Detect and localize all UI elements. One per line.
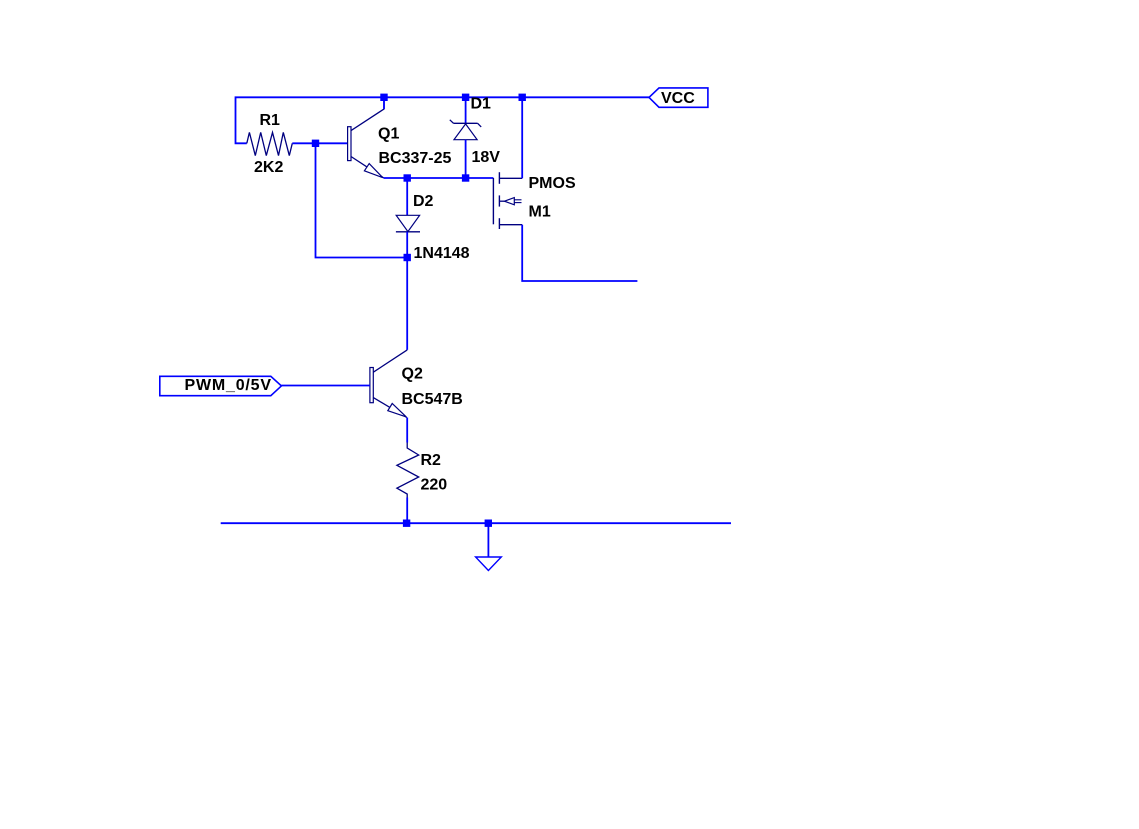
svg-text:BC547B: BC547B: [402, 391, 463, 408]
node junction rail-D1: [462, 94, 469, 101]
zener diode D1: [465, 97, 467, 123]
node junction emitter-D1: [462, 174, 469, 181]
svg-text:M1: M1: [529, 204, 551, 221]
node junction emitter-D2: [404, 174, 411, 181]
wire Q1 emitter run to PMOS gate: [384, 177, 494, 179]
svg-text:18V: 18V: [472, 149, 501, 166]
mosfet M1 body arrow: [499, 200, 504, 202]
resistor R1: [247, 132, 292, 155]
svg-text:R1: R1: [260, 112, 281, 129]
mosfet M1 channel bars: [498, 172, 500, 184]
svg-text:BC337-25: BC337-25: [379, 150, 452, 167]
svg-text:Q2: Q2: [402, 366, 423, 383]
node junction R1-base: [312, 140, 319, 147]
flag PWM_0/5V: [160, 376, 282, 395]
wire base node down: [316, 143, 408, 257]
mosfet M1 source stub: [499, 177, 522, 179]
svg-text:VCC: VCC: [661, 90, 695, 107]
wire PWM flag to Q2 base: [281, 385, 370, 387]
mosfet M1 drain stub: [499, 224, 522, 226]
wire VCC to M1 source: [521, 97, 523, 178]
svg-text:Q1: Q1: [378, 125, 399, 142]
wire Q1 collector stub: [383, 97, 385, 109]
wire R2 to ground bus: [406, 498, 408, 524]
svg-text:1N4148: 1N4148: [414, 245, 470, 262]
transistor Q2 collector: [373, 350, 407, 372]
transistor Q1 emitter: [351, 157, 384, 178]
wire M1 drain out: [522, 225, 637, 281]
flag VCC: [649, 88, 708, 107]
transistor Q2 emitter: [373, 398, 407, 418]
wire R1 to Q1 base: [292, 142, 347, 144]
diode D2: [406, 178, 408, 215]
node junction gnd-sym: [485, 520, 492, 527]
transistor Q2 emitter arrow: [388, 404, 407, 417]
transistor Q1 collector: [351, 97, 384, 130]
node junction rail-Q1: [380, 94, 387, 101]
mosfet M1 gate bar: [492, 178, 494, 224]
transistor Q1 emitter arrow: [364, 164, 382, 178]
svg-text:PMOS: PMOS: [529, 175, 576, 192]
node junction rail-M1: [519, 94, 526, 101]
resistor R2: [397, 443, 419, 498]
svg-text:220: 220: [421, 477, 448, 494]
transistor Q2 bar: [370, 368, 373, 403]
node junction D2-bottom: [404, 254, 411, 261]
wire top rail VCC: [236, 97, 650, 143]
transistor Q1 bar: [348, 127, 351, 161]
svg-text:R2: R2: [421, 452, 442, 469]
svg-text:PWM_0/5V: PWM_0/5V: [185, 377, 272, 394]
ground symbol: [487, 523, 489, 557]
svg-text:D1: D1: [471, 96, 492, 113]
svg-text:2K2: 2K2: [254, 159, 283, 176]
svg-text:D2: D2: [413, 193, 434, 210]
node junction gnd-R2: [403, 520, 410, 527]
wire D2 to Q2 collector: [406, 258, 408, 350]
wire ground bus: [221, 522, 731, 524]
wire Q2 emitter to R2: [406, 418, 408, 443]
